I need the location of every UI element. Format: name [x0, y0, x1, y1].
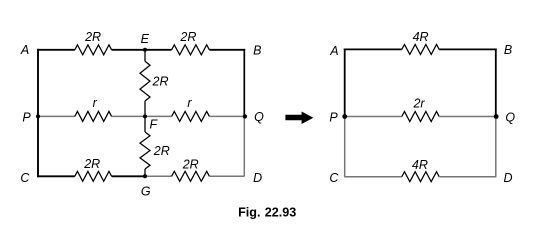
node P (left circuit) [36, 114, 40, 118]
svg-text:E: E [141, 32, 150, 46]
wire: bottom edge G to 2R [145, 175, 172, 177]
wire: middle row P to 2r [345, 116, 402, 118]
value label 2R (E-F) [152, 74, 169, 88]
svg-text:A: A [329, 44, 338, 58]
node label C (right circuit) [329, 171, 339, 185]
wire: left edge A-P-C (left circuit) [37, 49, 39, 177]
node label F [149, 117, 158, 131]
wire: vertical 2R to G [144, 169, 146, 176]
svg-text:2R: 2R [83, 157, 100, 171]
resistor 4R (C-D) [402, 172, 439, 182]
svg-text:G: G [141, 184, 151, 198]
svg-text:2R: 2R [84, 30, 101, 44]
node label B (left circuit) [253, 44, 261, 58]
svg-text:2r: 2r [412, 96, 425, 110]
resistor 2r (P-Q) [402, 112, 439, 122]
wire: vertical F to 2R [144, 116, 146, 132]
resistor 2R (E-F vertical) [140, 61, 150, 101]
value label 2R (A-E) [84, 30, 101, 44]
svg-text:Fig. 22.93: Fig. 22.93 [238, 206, 296, 220]
node label Q (left circuit) [254, 110, 264, 124]
node label P (right circuit) [329, 111, 338, 125]
wire: bottom edge 2R to G [112, 175, 145, 177]
node G [143, 174, 147, 178]
wire: bottom edge C to 4R [344, 176, 402, 178]
svg-text:A: A [20, 43, 29, 57]
node label E [141, 32, 150, 46]
node P (right circuit) [342, 114, 347, 119]
svg-text:4R: 4R [412, 158, 428, 172]
node label Q (right circuit) [505, 110, 515, 124]
wire: right edge Q to D [495, 117, 497, 177]
svg-text:2R: 2R [153, 144, 170, 158]
value label r (F-Q) [187, 96, 192, 110]
svg-text:B: B [253, 44, 261, 58]
wire: vertical E to 2R [144, 50, 146, 62]
wire: bottom edge C to 2R [37, 175, 75, 177]
wire: top edge A to 4R [344, 48, 402, 50]
resistor r (F-Q) [172, 111, 210, 121]
value label r (P-F) [93, 96, 98, 110]
node label A (left circuit) [20, 43, 29, 57]
node label A (right circuit) [329, 44, 338, 58]
wire: top edge A to 2R (left circuit) [37, 49, 75, 51]
wire: middle row P to r [38, 115, 75, 117]
svg-text:2R: 2R [179, 30, 196, 44]
svg-text:C: C [329, 171, 339, 185]
value label 2R (F-G) [153, 144, 170, 158]
resistor 2R (F-G vertical) [140, 132, 150, 169]
wire: top edge 4R to B [439, 48, 497, 50]
value label 2R (G-D) [182, 157, 199, 171]
wire: right edge B to Q [243, 49, 245, 117]
wire: right edge Q to D [243, 116, 245, 176]
wire: right edge B to Q [495, 49, 497, 117]
wire: bottom edge 2R to D [209, 175, 244, 177]
svg-text:P: P [329, 111, 338, 125]
svg-text:Q: Q [505, 110, 515, 124]
wire: middle row r to Q [209, 115, 244, 117]
node label G [141, 184, 151, 198]
wire: left edge P to C (right circuit) [344, 117, 346, 177]
value label 4R (C-D) [412, 158, 428, 172]
wire: top edge 2R to B [209, 49, 245, 51]
node F [143, 114, 147, 118]
node Q (left circuit) [243, 114, 247, 118]
node label B (right circuit) [504, 43, 512, 57]
node label D (left circuit) [253, 171, 262, 185]
resistor 2R (A-E) [75, 45, 112, 55]
node label D (right circuit) [503, 171, 512, 185]
wire: middle row r to F [112, 115, 145, 117]
wire: middle row 2r to Q [439, 116, 496, 118]
resistor 2R (E-B) [172, 45, 210, 55]
svg-text:2R: 2R [182, 157, 199, 171]
resistor 2R (G-D) [172, 171, 210, 181]
resistor r (P-F) [75, 111, 112, 121]
wire: left edge A to P (right circuit) [344, 48, 346, 116]
wire: top edge E to 2R [145, 49, 172, 51]
svg-text:Q: Q [254, 110, 264, 124]
value label 2R (E-B) [179, 30, 196, 44]
node label P (left circuit) [22, 111, 31, 125]
svg-text:B: B [504, 43, 512, 57]
equivalence arrow [285, 112, 313, 125]
node E [143, 48, 147, 52]
value label 2R (C-G) [83, 157, 100, 171]
resistor 2R (C-G) [75, 171, 112, 181]
caption Fig. 22.93 [238, 206, 296, 220]
svg-text:P: P [22, 111, 31, 125]
resistor 4R (A-B) [402, 44, 439, 54]
wire: top edge 2R to E [112, 49, 145, 51]
node Q (right circuit) [494, 114, 499, 119]
svg-text:4R: 4R [413, 30, 429, 44]
svg-text:D: D [503, 171, 512, 185]
value label 4R (A-B) [413, 30, 429, 44]
value label 2r (P-Q) [412, 96, 425, 110]
svg-text:2R: 2R [152, 74, 169, 88]
wire: vertical 2R to F [144, 101, 146, 116]
svg-text:C: C [20, 171, 30, 185]
wire: middle row F to r [145, 115, 172, 117]
svg-text:D: D [253, 171, 262, 185]
node label C (left circuit) [20, 171, 30, 185]
wire: bottom edge 4R to D [439, 176, 496, 178]
